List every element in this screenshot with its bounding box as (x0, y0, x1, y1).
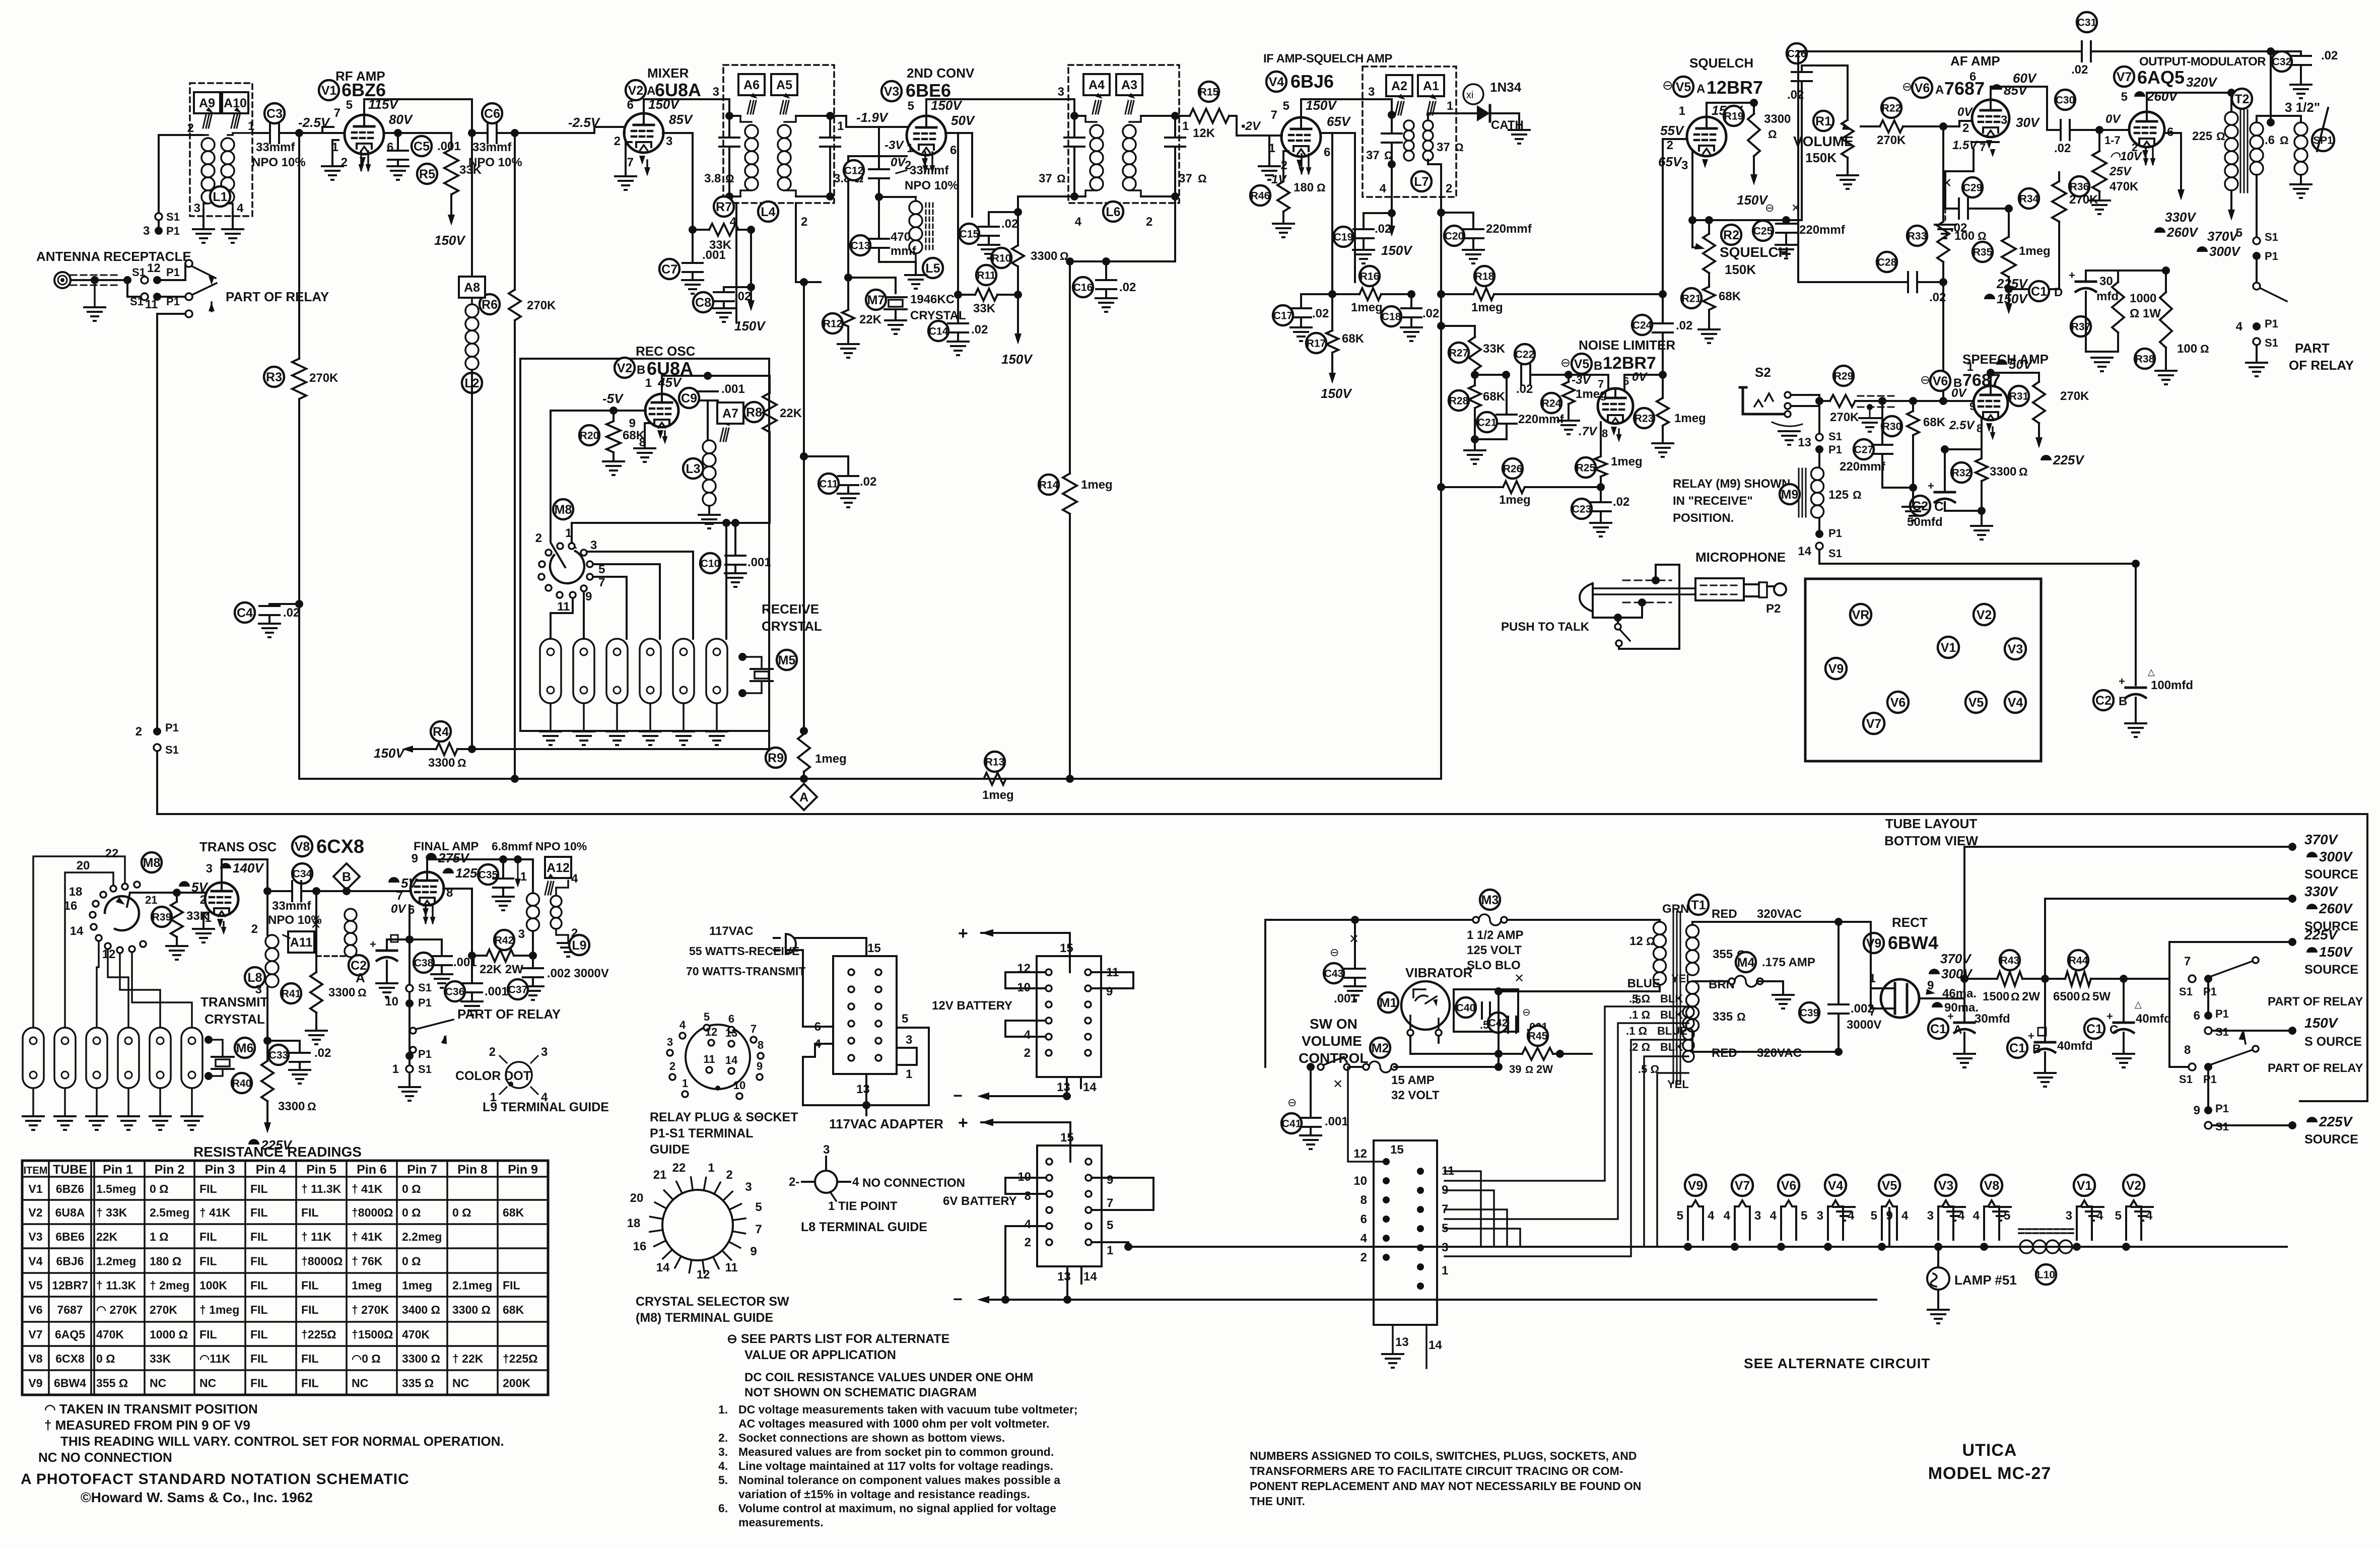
crystal selector guide (662, 1190, 733, 1260)
wire L4 bottoms (729, 171, 740, 196)
wire 225V riser (2169, 942, 2292, 979)
wire T2 primary top (2230, 93, 2232, 112)
svg-text:2: 2 (135, 725, 142, 738)
junction (468, 129, 476, 137)
svg-text:150V: 150V (1381, 243, 1413, 258)
wire V3 out col (945, 133, 958, 295)
svg-text:68K: 68K (1483, 390, 1506, 403)
svg-text:33K: 33K (150, 1352, 171, 1365)
svg-text:R1: R1 (1815, 114, 1831, 128)
svg-text:3: 3 (2001, 113, 2007, 127)
svg-text:V1: V1 (1941, 641, 1956, 655)
svg-text:330V: 330V (2165, 210, 2197, 225)
svg-text:33K: 33K (1483, 342, 1506, 356)
svg-text:100: 100 (2177, 342, 2197, 356)
svg-text:6BJ6: 6BJ6 (1290, 71, 1334, 92)
svg-text:R23: R23 (1635, 413, 1654, 425)
svg-text:L5: L5 (925, 261, 940, 276)
svg-text:3.8: 3.8 (704, 172, 721, 185)
svg-text:V2: V2 (1977, 608, 1992, 622)
voltage 225V transmit (248, 1139, 259, 1145)
svg-text:A5: A5 (776, 78, 792, 92)
svg-text:RED: RED (1712, 1046, 1737, 1060)
resistor R3 270K (298, 133, 300, 359)
C1D-R37 rails (2086, 270, 2118, 272)
svg-text:⊖: ⊖ (1522, 1007, 1531, 1018)
svg-text:+: + (958, 924, 968, 943)
capacitor C22 (1475, 374, 1506, 376)
svg-text:SQUELCH: SQUELCH (1720, 244, 1789, 260)
svg-text:M2: M2 (1372, 1041, 1389, 1055)
wire S1-2 column (156, 314, 158, 731)
svg-text:TRANS OSC: TRANS OSC (199, 839, 277, 854)
svg-text:† 76K: † 76K (352, 1255, 383, 1268)
svg-text:270K: 270K (527, 299, 556, 312)
svg-text:C3: C3 (266, 107, 283, 121)
svg-text:.02: .02 (1312, 307, 1329, 320)
L8 ref (245, 967, 265, 987)
svg-text:33K: 33K (186, 909, 209, 923)
svg-text:R7: R7 (716, 200, 732, 214)
svg-text:180 Ω: 180 Ω (150, 1255, 181, 1268)
contact 3 S1 (155, 213, 162, 220)
wire y560 link (796, 281, 821, 283)
terminal A9 (194, 92, 220, 113)
L8 guide (815, 1171, 837, 1193)
terminal A11 (288, 931, 314, 953)
svg-text:(M8) TERMINAL GUIDE: (M8) TERMINAL GUIDE (636, 1311, 773, 1325)
crystal M7 sym (885, 296, 907, 298)
svg-text:C12: C12 (844, 165, 864, 177)
svg-text:14: 14 (1083, 1081, 1097, 1094)
adapter box (833, 956, 897, 1074)
speaker SP1 (2294, 122, 2307, 136)
tube V6B 7687 (1974, 386, 2008, 420)
S2 frame (1743, 387, 1789, 414)
6.8mmf arrow (515, 879, 521, 888)
svg-text:13: 13 (856, 1083, 870, 1096)
resistor R23 1meg (1657, 398, 1669, 426)
svg-text:270K: 270K (1830, 411, 1859, 424)
wire V1 cathode down to ground (332, 140, 338, 166)
junction (511, 129, 519, 137)
svg-text:12BR7: 12BR7 (1603, 354, 1656, 373)
T2 secondary coil (2250, 122, 2263, 136)
svg-text:C1: C1 (2086, 1022, 2102, 1036)
svg-text:355: 355 (1713, 948, 1733, 961)
resistor R46 180 (1283, 151, 1288, 181)
svg-text:225V: 225V (260, 1137, 293, 1153)
12V pins left (1046, 969, 1052, 975)
svg-text:R35: R35 (1973, 247, 1993, 258)
svg-text:FIL: FIL (250, 1230, 268, 1243)
svg-text:.02: .02 (860, 475, 876, 489)
coil L1 primary (201, 138, 215, 151)
svg-text:A: A (356, 970, 365, 985)
svg-text:R12: R12 (823, 318, 843, 330)
svg-text:335: 335 (1713, 1010, 1733, 1024)
wire contact1 up (572, 523, 726, 639)
wire C31 node down to T2 (2270, 51, 2272, 122)
C2A (349, 955, 369, 975)
svg-text:C10: C10 (701, 558, 720, 570)
wire L5 top rail (879, 196, 916, 198)
svg-text:C17: C17 (1273, 310, 1293, 322)
svg-text:FIL: FIL (199, 1328, 217, 1341)
svg-text:B: B (637, 363, 645, 377)
svg-text:C15: C15 (960, 229, 979, 240)
svg-text:C22: C22 (1515, 349, 1535, 361)
svg-text:+: + (370, 938, 376, 951)
wire grid col to wiper (551, 411, 565, 567)
svg-text:FIL: FIL (503, 1279, 520, 1292)
ground V2A (626, 142, 632, 176)
C33 ref final (268, 1045, 289, 1065)
flag 5V final (388, 877, 399, 883)
svg-text:3300: 3300 (1764, 112, 1791, 126)
svg-text:BLK: BLK (1660, 1041, 1683, 1053)
wire to mixer grid (515, 132, 594, 134)
svg-text:V8: V8 (1984, 1179, 2000, 1193)
svg-text:.02: .02 (1516, 382, 1533, 396)
node A diamond (800, 775, 808, 783)
shield jumper (1652, 576, 1660, 584)
svg-text:6: 6 (950, 144, 957, 157)
tube V8B final amp (411, 872, 444, 905)
svg-text:3: 3 (1681, 159, 1688, 172)
svg-text:A9: A9 (199, 96, 215, 110)
svg-text:S1: S1 (418, 981, 432, 994)
svg-text:32 VOLT: 32 VOLT (1391, 1089, 1440, 1102)
svg-text:1meg: 1meg (352, 1279, 382, 1292)
contact 3 P1 (155, 227, 163, 235)
svg-text:9: 9 (1106, 985, 1113, 998)
svg-text:37: 37 (1366, 149, 1380, 162)
svg-text:R39: R39 (152, 912, 172, 923)
svg-text:NC: NC (352, 1377, 368, 1390)
svg-text:.001: .001 (453, 956, 477, 969)
wire L4 pin4 col (735, 203, 737, 322)
junction (2005, 285, 2013, 293)
svg-text:V9: V9 (1688, 1179, 1704, 1193)
C40 (1456, 997, 1476, 1018)
adapter pins (848, 969, 854, 975)
wire M9 S1 riser (1818, 401, 1820, 433)
svg-text:4: 4 (852, 1175, 859, 1189)
svg-text:V4: V4 (1828, 1179, 1844, 1193)
svg-text:22K: 22K (780, 407, 802, 420)
svg-text:⊖: ⊖ (1330, 946, 1339, 959)
svg-text:12BR7: 12BR7 (1707, 77, 1763, 98)
relay plug pins (704, 1025, 710, 1031)
svg-text:C4: C4 (237, 606, 253, 620)
svg-text:6BZ6: 6BZ6 (56, 1182, 84, 1195)
svg-text:M1: M1 (1380, 996, 1397, 1010)
svg-text:Ω: Ω (307, 1100, 316, 1113)
svg-text:9: 9 (2194, 1104, 2200, 1117)
capacitor C14 (957, 295, 959, 323)
junction (1597, 483, 1605, 491)
svg-text:12K: 12K (1193, 126, 1215, 140)
wire BLUE (1499, 990, 1654, 992)
svg-text:85V: 85V (669, 112, 694, 127)
svg-text:◠ TAKEN IN TRANSMIT POSITION: ◠ TAKEN IN TRANSMIT POSITION (44, 1401, 258, 1417)
wire diode out (1490, 113, 1519, 130)
svg-text:C16: C16 (1073, 282, 1093, 294)
svg-text:0 Ω: 0 Ω (402, 1182, 421, 1195)
arm slant (2260, 288, 2287, 301)
svg-text:† MEASURED FROM PIN 9 OF V9: † MEASURED FROM PIN 9 OF V9 (44, 1418, 250, 1433)
svg-text:5: 5 (902, 1012, 908, 1026)
svg-text:† 22K: † 22K (452, 1352, 484, 1365)
svg-text:.5 Ω: .5 Ω (1638, 1063, 1659, 1075)
svg-text:C11: C11 (819, 479, 838, 490)
contact lower second (185, 310, 192, 317)
svg-text:V9: V9 (28, 1377, 42, 1390)
enclosure rec osc box (520, 359, 769, 731)
svg-text:A10: A10 (224, 96, 247, 110)
svg-text:B: B (342, 870, 351, 884)
svg-text:V6: V6 (1933, 374, 1948, 388)
svg-text:3: 3 (1754, 1209, 1761, 1223)
svg-text:C37: C37 (508, 984, 528, 996)
svg-text:4: 4 (2236, 320, 2243, 333)
wire L7 top rail (1301, 99, 1392, 115)
capacitor C43 (1324, 963, 1344, 983)
svg-text:Nominal tolerance on component: Nominal tolerance on component values ma… (738, 1473, 1060, 1487)
svg-text:R9: R9 (768, 751, 784, 765)
vibrator internals (1413, 989, 1425, 997)
svg-text:5: 5 (1871, 1209, 1877, 1223)
svg-text:220mmf: 220mmf (1799, 223, 1846, 237)
wire vibrator to R45 net (1498, 991, 1500, 1067)
svg-text:3300: 3300 (328, 986, 355, 999)
svg-text:.02: .02 (1119, 281, 1136, 294)
dash segment (316, 955, 347, 957)
resistor R33 100 (1942, 126, 1944, 222)
ptt switch (1615, 624, 1621, 630)
color dot circle (506, 1062, 532, 1088)
svg-text:11: 11 (725, 1261, 737, 1274)
svg-text:FIL: FIL (250, 1377, 268, 1390)
transmit crystal slots (23, 1028, 44, 1088)
svg-text:5W: 5W (2092, 990, 2111, 1003)
svg-text:2: 2 (801, 215, 807, 229)
svg-text:6: 6 (1361, 1213, 1367, 1226)
V2A out 85V wire (663, 133, 693, 230)
wire contact11 (551, 598, 573, 639)
svg-text:2.: 2. (718, 1431, 728, 1444)
wire RED bottom (1692, 1032, 1839, 1052)
svg-text:1: 1 (248, 119, 254, 133)
svg-text:4: 4 (571, 872, 578, 886)
svg-text:V4: V4 (28, 1255, 42, 1268)
svg-text:R19: R19 (1724, 111, 1744, 122)
svg-text:Pin 3: Pin 3 (205, 1163, 235, 1177)
wire L6 pin1 to R15 (1174, 115, 1176, 117)
svg-text:13: 13 (1798, 436, 1811, 449)
svg-text:FIL: FIL (301, 1303, 319, 1316)
coil L3 (703, 440, 716, 453)
capacitor C28 (1798, 281, 1908, 283)
upper arm (2211, 961, 2253, 976)
svg-text:4: 4 (1380, 182, 1387, 195)
svg-text:.02: .02 (2054, 142, 2071, 155)
C1A wiring (1963, 1033, 1965, 1054)
svg-text:6BE6: 6BE6 (55, 1230, 85, 1243)
svg-text:5.: 5. (718, 1473, 728, 1487)
wire C19 down arrow (1391, 213, 1393, 228)
svg-text:.02: .02 (2321, 49, 2338, 62)
svg-text:V7: V7 (1735, 1179, 1750, 1193)
svg-text:FIL: FIL (250, 1352, 268, 1365)
svg-text:2: 2 (1667, 139, 1673, 152)
svg-text:5: 5 (2121, 90, 2128, 104)
tube V6A 7687 (1972, 100, 2009, 137)
svg-text:2.1meg: 2.1meg (452, 1279, 492, 1292)
wire C9 to L3 (707, 400, 709, 440)
svg-text:S1: S1 (418, 1063, 432, 1075)
svg-text:Ω: Ω (2019, 465, 2028, 478)
svg-text:.7V: .7V (1579, 425, 1598, 438)
wire left vertical (1264, 920, 1266, 1067)
svg-text:13: 13 (1057, 1270, 1071, 1284)
svg-text:⊖: ⊖ (1287, 1096, 1297, 1109)
svg-text:3: 3 (2066, 1209, 2072, 1223)
svg-text:R11: R11 (977, 270, 996, 282)
svg-text:FIL: FIL (250, 1279, 268, 1292)
svg-text:FIL: FIL (199, 1255, 217, 1268)
junction (2120, 975, 2128, 983)
svg-text:P1: P1 (2265, 317, 2278, 330)
svg-text:DC COIL RESISTANCE VALUES UNDE: DC COIL RESISTANCE VALUES UNDER ONE OHM (744, 1371, 1033, 1384)
svg-text:0V: 0V (1951, 386, 1967, 400)
svg-text:2: 2 (1962, 121, 1969, 135)
svg-text:C20: C20 (1445, 231, 1464, 242)
svg-text:⊖: ⊖ (1662, 78, 1673, 93)
150V source wire (2212, 1030, 2292, 1032)
heater socket V6 (1781, 1200, 1796, 1240)
svg-text:.02: .02 (971, 323, 988, 336)
contact 2 S1 (154, 744, 161, 751)
wire grid step (322, 132, 333, 133)
heater arrows V3 (924, 152, 926, 171)
svg-text:⊖ SEE PARTS LIST FOR ALTERNATE: ⊖ SEE PARTS LIST FOR ALTERNATE (727, 1332, 949, 1346)
svg-text:REC OSC: REC OSC (636, 344, 696, 359)
svg-text:1.: 1. (718, 1403, 728, 1416)
6V pin1 to bus (1092, 1242, 1128, 1247)
wire V2B grid line (551, 410, 646, 412)
svg-text:S1: S1 (2215, 1026, 2229, 1038)
svg-text:16: 16 (633, 1240, 647, 1253)
svg-text:S2: S2 (1755, 365, 1771, 380)
tube V2A 6U8A mixer (624, 113, 663, 153)
svg-text:C1: C1 (2031, 285, 2047, 299)
svg-text:3: 3 (206, 862, 213, 876)
junction (405, 935, 414, 944)
svg-text:1: 1 (1442, 1264, 1448, 1277)
capacitor C33 (267, 1041, 300, 1053)
svg-text:13: 13 (1395, 1335, 1409, 1349)
svg-text:V6: V6 (1781, 1179, 1797, 1193)
coil L2 (471, 298, 473, 304)
svg-text:P1: P1 (2265, 250, 2278, 262)
svg-text:0 Ω: 0 Ω (150, 1182, 169, 1195)
wire top rail C31 (1798, 50, 2082, 52)
svg-text:3: 3 (906, 1033, 912, 1047)
junction (1407, 290, 1415, 298)
svg-text:0 Ω: 0 Ω (96, 1352, 115, 1365)
transformer T2 ref (2232, 89, 2252, 109)
svg-text:T1: T1 (1691, 898, 1706, 912)
wire V7 screen down arrow (2164, 133, 2181, 191)
svg-text:1meg: 1meg (2019, 244, 2051, 258)
svg-text:370V: 370V (1940, 951, 1972, 966)
wire relay arm upper (157, 279, 185, 281)
junction (1014, 291, 1022, 299)
svg-text:C9: C9 (681, 391, 697, 406)
capacitor C26 (1801, 81, 1803, 220)
wire V2A grid (624, 127, 626, 133)
svg-text:3.: 3. (718, 1445, 728, 1458)
svg-text:15 AMP: 15 AMP (1391, 1073, 1435, 1087)
svg-text:† 1meg: † 1meg (199, 1303, 239, 1316)
selector M8 transmit ref (142, 852, 162, 872)
contact 1 S1 (406, 1065, 413, 1072)
svg-text:100mfd: 100mfd (2151, 679, 2193, 692)
svg-text:TUBE LAYOUT: TUBE LAYOUT (1885, 816, 1978, 831)
switch M2 (1318, 1064, 1324, 1070)
svg-text:.02: .02 (2071, 63, 2088, 77)
svg-text:65V: 65V (1658, 154, 1683, 169)
capacitor C11 (804, 456, 848, 476)
svg-text:SLO BLO: SLO BLO (1467, 959, 1521, 972)
junction (263, 887, 271, 895)
wire contact3 (587, 552, 693, 639)
svg-text:V1: V1 (2077, 1179, 2092, 1193)
svg-text:FIL: FIL (301, 1206, 319, 1219)
svg-text:3: 3 (143, 224, 150, 238)
socket-switch wire (1348, 1067, 1386, 1162)
svg-text:6: 6 (387, 141, 393, 154)
svg-text:-2.5V: -2.5V (568, 115, 601, 130)
tube V9 6BW4 rectifier (1881, 979, 1919, 1018)
svg-text:SEE ALTERNATE CIRCUIT: SEE ALTERNATE CIRCUIT (1744, 1356, 1930, 1371)
svg-text:S1: S1 (166, 211, 180, 223)
diode symbol (1477, 105, 1490, 121)
svg-text:8: 8 (1602, 427, 1608, 440)
wire R18 node up to V5A grid (1663, 139, 1687, 294)
wire L7 sec top (1428, 113, 1476, 120)
svg-text:150V: 150V (1321, 386, 1352, 401)
svg-text:M4: M4 (1737, 956, 1755, 970)
svg-text:R3: R3 (266, 370, 282, 384)
svg-text:S1: S1 (1828, 547, 1842, 560)
svg-text:6: 6 (627, 98, 634, 112)
svg-text:3: 3 (1817, 1209, 1823, 1223)
svg-text:C30: C30 (2056, 95, 2075, 106)
svg-text:3: 3 (667, 1036, 673, 1048)
contact 13 S1 (1816, 434, 1823, 441)
svg-text:R29: R29 (1834, 371, 1854, 382)
capacitor C8 (724, 287, 751, 292)
svg-text:R31: R31 (2009, 391, 2029, 402)
svg-text:3: 3 (713, 85, 719, 99)
crystal M7 1946KC (848, 278, 896, 293)
junction (468, 745, 476, 753)
contact 2 P1 (153, 727, 161, 735)
resistor R31 270K (2033, 382, 2045, 423)
